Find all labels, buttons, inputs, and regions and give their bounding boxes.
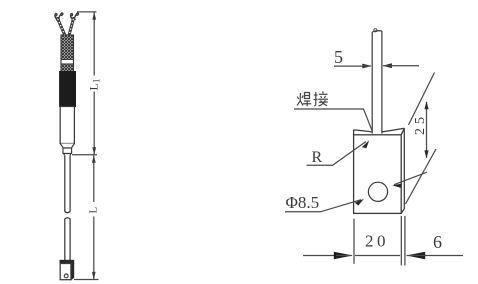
collar	[63, 148, 72, 154]
接	[314, 92, 318, 106]
arrow pointing left at right extension line	[406, 252, 425, 260]
dimension line 20/6 left segment with arrow pointing right	[303, 255, 338, 257]
braided cable upper section	[61, 35, 74, 60]
R arrowhead (points up-right at corner)	[361, 140, 372, 150]
black sleeve	[60, 72, 76, 107]
extension line middle (from collar)	[72, 154, 97, 156]
plate front face	[354, 135, 402, 214]
probe sheath lower segment (after break)	[65, 218, 70, 261]
svg-text:6: 6	[433, 232, 442, 252]
twisted wire right	[69, 19, 73, 36]
weld label 焊接 (drawn strokes)	[297, 92, 328, 107]
oblique extension line lower (25 dim)	[406, 149, 437, 204]
dimension line L	[93, 155, 95, 279]
braid gap band	[62, 60, 74, 64]
arrowhead 25 bottom (down)	[424, 150, 428, 158]
φ8.5 arrowhead (points at hole)	[354, 199, 365, 207]
dimension line middle segment (under 20)	[355, 255, 400, 257]
arrowhead L1 top (up)	[92, 12, 96, 20]
svg-text:L: L	[88, 207, 100, 214]
焊	[297, 93, 303, 106]
dimension 5 left line + arrow (points right)	[334, 65, 363, 67]
probe sheath upper segment	[65, 155, 70, 213]
taper shoulder	[60, 144, 74, 149]
tube	[372, 31, 382, 134]
svg-text:5: 5	[334, 47, 343, 67]
R leader line	[307, 142, 367, 166]
dimension line 25 (vertical, arrows both ends)	[426, 102, 428, 158]
arrowhead 25 top (up)	[424, 101, 428, 109]
svg-text:R: R	[312, 149, 323, 166]
tube top cap	[372, 31, 382, 32]
hole (φ8.5)	[368, 182, 387, 201]
collar step	[64, 154, 70, 156]
extension line bottom-left of plate	[353, 219, 355, 264]
mounting block side face	[71, 264, 74, 280]
mounting block front face	[60, 264, 71, 280]
φ8.5 leader line	[285, 200, 361, 212]
plate top face (3D)	[354, 128, 405, 132]
extension line top (from fork)	[77, 11, 97, 13]
dimension 5 right line + arrow (points left)	[382, 63, 392, 68]
extension lines bottom-right (plate thickness)	[401, 216, 405, 266]
svg-text:20: 20	[365, 232, 389, 251]
mounting block top face	[60, 260, 74, 263]
transition tube (handle)	[60, 107, 74, 144]
arrowhead L1 bottom (down)	[92, 147, 96, 155]
arrowhead L bottom (down)	[92, 272, 96, 280]
svg-text:Φ8.5: Φ8.5	[286, 193, 320, 212]
arrowhead L top (up)	[92, 155, 96, 163]
dimension line L1	[93, 12, 95, 154]
dimension line right segment (under 6)	[407, 255, 464, 257]
plate side face (3D)	[401, 128, 404, 213]
mounting block hole	[64, 274, 68, 278]
extension line bottom (from block)	[74, 279, 99, 281]
oblique extension line upper (25 dim)	[409, 73, 435, 126]
braided cable lower section	[61, 64, 74, 72]
weld leader line	[294, 109, 372, 131]
wire fork terminal left	[55, 13, 63, 20]
wire fork terminal right	[71, 13, 79, 20]
hole leader line (from 25 area)	[394, 172, 427, 185]
svg-text:25: 25	[413, 113, 428, 135]
twisted wire left	[58, 19, 65, 36]
hole leader arrowhead (points down-left at hole rim)	[392, 182, 403, 190]
